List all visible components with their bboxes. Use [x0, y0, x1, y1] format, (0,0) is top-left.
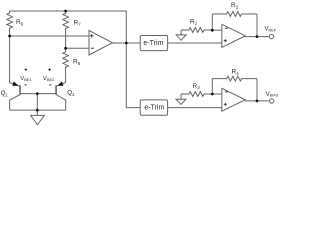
svg-text:e-Trim: e-Trim	[144, 105, 164, 112]
junction collector rail	[36, 109, 39, 112]
VBE1 plus sign	[25, 69, 28, 71]
resistor R5	[63, 48, 69, 82]
wire base tap to emitter-collector rail	[36, 94, 38, 111]
junction top rail R7	[64, 10, 67, 13]
junction R1 inverting node	[211, 29, 214, 32]
resistor R1	[181, 28, 212, 33]
wire feedback up left U2	[211, 14, 213, 30]
terminal VBIAS	[270, 99, 274, 103]
terminal VREF	[269, 34, 273, 38]
VBE2 plus sign	[48, 69, 51, 71]
wire base rail Q1-Q2	[20, 93, 56, 95]
svg-text:R6: R6	[16, 19, 24, 26]
op-amp U1	[89, 31, 113, 56]
junction R3 inverting node	[211, 93, 214, 96]
wire left rail to Q1 emitter	[9, 36, 11, 83]
transistor Q1 collector lead	[10, 95, 21, 111]
ground R3 stub	[180, 94, 182, 99]
svg-text:R7: R7	[74, 19, 82, 26]
wire R3 to U3 inverting	[212, 93, 222, 95]
wire R1 to U2 inverting	[212, 29, 222, 31]
wire noninverting input node A	[10, 35, 89, 37]
transistor Q1 emitter arrow	[12, 82, 18, 86]
e-Trim block 2	[140, 100, 167, 115]
wire U2 output to VREF	[245, 36, 270, 38]
svg-text:R3: R3	[193, 83, 201, 90]
junction U3 output feedback	[256, 100, 259, 103]
U2 plus glyph	[224, 40, 227, 42]
wire U1 output	[113, 42, 141, 44]
wire top feedback rail	[10, 10, 127, 12]
transistor Q1 emitter lead	[10, 83, 20, 87]
wire feedback down right U3	[256, 79, 258, 101]
U2 minus glyph	[225, 27, 228, 29]
svg-text:e-Trim: e-Trim	[143, 40, 163, 47]
resistor R6	[7, 11, 13, 36]
svg-text:R2: R2	[231, 2, 239, 9]
ground center stub	[36, 110, 38, 115]
resistor R3	[181, 92, 212, 97]
junction U1 output	[125, 42, 128, 45]
ground R1 stub	[180, 30, 182, 35]
U3 minus glyph	[225, 91, 228, 93]
transistor Q2 collector lead	[56, 95, 66, 111]
wire U3 output to VBIAS	[245, 100, 270, 102]
wire feedback up left U3	[211, 79, 213, 94]
junction U2 output feedback	[256, 35, 259, 38]
svg-text:VBE2: VBE2	[43, 76, 55, 82]
junction base rail	[36, 92, 39, 95]
junction node A	[8, 35, 11, 38]
op-amp U3	[222, 88, 246, 111]
VBE2 minus sign	[49, 84, 51, 86]
wire collector bottom rail	[10, 109, 66, 111]
transistor Q2 emitter lead	[56, 83, 65, 87]
svg-text:VBIAS: VBIAS	[266, 92, 279, 98]
junction node B	[64, 47, 67, 50]
svg-text:R1: R1	[190, 19, 198, 26]
ground R3 symbol	[176, 99, 186, 104]
transistor Q2 base bar	[55, 85, 57, 94]
svg-text:Q1: Q1	[1, 90, 9, 97]
transistor Q1 base bar	[19, 85, 21, 94]
e-Trim block 1	[140, 36, 167, 51]
resistor R7	[63, 11, 69, 48]
resistor R4	[212, 76, 257, 81]
wire inverting input node B	[66, 47, 89, 49]
svg-text:R4: R4	[232, 69, 240, 76]
svg-text:R5: R5	[73, 59, 81, 66]
resistor R2	[212, 12, 257, 17]
svg-text:VREF: VREF	[265, 26, 277, 32]
wire feedback down right U2	[256, 14, 258, 37]
svg-text:VBE1: VBE1	[20, 76, 32, 82]
U3 plus glyph	[224, 103, 227, 105]
transistor Q2 emitter arrow	[57, 82, 63, 86]
wire e-Trim1 to U2 noninverting	[168, 42, 222, 44]
VBE1 minus sign	[24, 84, 26, 86]
ground R1 symbol	[176, 35, 186, 40]
wire e-Trim2 to U3 noninverting	[168, 107, 222, 109]
U1 plus glyph	[90, 35, 94, 37]
ground center symbol	[31, 115, 45, 124]
op-amp U2	[222, 24, 246, 47]
U1 minus glyph	[91, 47, 94, 49]
wire feedback vertical from rail to bottom e-Trim	[126, 11, 140, 108]
svg-text:Q2: Q2	[67, 90, 75, 97]
